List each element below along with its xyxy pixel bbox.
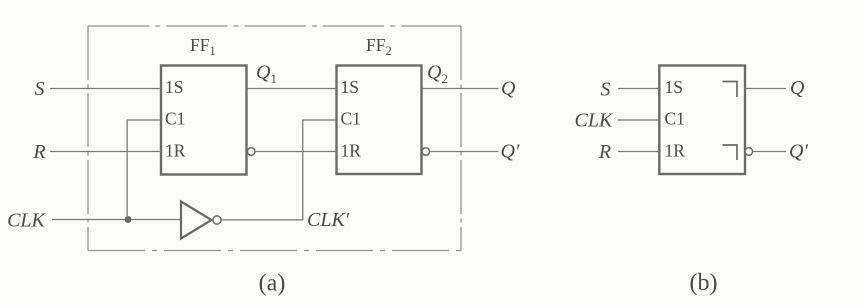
wire CLK input (b) — [618, 119, 660, 121]
FF1 inverted output bubble — [247, 148, 255, 156]
wire Q' output of FF2 — [430, 151, 499, 153]
svg-text:1R: 1R — [341, 141, 362, 161]
svg-text:S: S — [35, 78, 45, 100]
svg-text:C1: C1 — [165, 109, 185, 129]
svg-text:1S: 1S — [665, 77, 683, 97]
wire CLK branch up to FF1 C1 — [127, 120, 161, 220]
wire R input (b) — [618, 151, 659, 153]
svg-text:Q: Q — [790, 77, 805, 99]
junction dot on CLK line — [125, 216, 132, 223]
inverter U1 output bubble — [213, 216, 221, 224]
wire CLK' from inverter to FF2 C1 — [221, 120, 336, 220]
svg-text:(a): (a) — [259, 271, 286, 297]
svg-text:1R: 1R — [165, 141, 186, 161]
svg-text:1R: 1R — [665, 141, 686, 161]
wire R input to FF1 1R — [50, 151, 161, 153]
wire Q output of FF2 — [422, 88, 499, 90]
svg-text:1S: 1S — [165, 77, 183, 97]
enclosure left edge — [87, 26, 89, 251]
svg-text:C1: C1 — [665, 109, 685, 129]
FF2 inverted output bubble — [422, 148, 430, 156]
svg-text:CLK′: CLK′ — [307, 209, 350, 231]
svg-text:R: R — [598, 141, 611, 163]
inverted output bubble (b) — [745, 148, 753, 156]
flip-flop box of circuit (b) — [659, 66, 745, 175]
wire Q' output (b) — [753, 151, 786, 153]
enclosure: dash-dot boundary box of circuit (a), top edge — [88, 25, 461, 27]
svg-text:S: S — [600, 79, 610, 101]
svg-text:R: R — [32, 141, 45, 163]
flip-flop FF1 box — [161, 66, 247, 175]
inverter U1 triangle — [181, 202, 212, 239]
wire S input (b) — [618, 88, 659, 90]
wire S input to FF1 1S — [50, 88, 161, 90]
wire Q1: FF1 output to FF2 1S — [247, 88, 337, 90]
flip-flop FF2 box — [337, 66, 422, 175]
svg-text:Q: Q — [501, 78, 516, 100]
enclosure right edge — [460, 26, 462, 251]
postponed output symbol at Q (b) — [723, 82, 738, 98]
svg-text:C1: C1 — [341, 109, 361, 129]
wire CLK input to inverter — [52, 219, 181, 221]
svg-text:Q′: Q′ — [501, 141, 520, 163]
svg-text:(b): (b) — [690, 270, 718, 296]
postponed output symbol at Q' (b) — [723, 145, 738, 160]
svg-text:1S: 1S — [341, 77, 359, 97]
wire FF1 Q' to FF2 1R — [255, 151, 336, 153]
wire Q output (b) — [745, 88, 786, 90]
svg-text:CLK: CLK — [575, 110, 614, 132]
svg-text:Q′: Q′ — [789, 141, 808, 163]
enclosure bottom edge — [88, 250, 461, 252]
svg-text:CLK: CLK — [7, 210, 46, 232]
